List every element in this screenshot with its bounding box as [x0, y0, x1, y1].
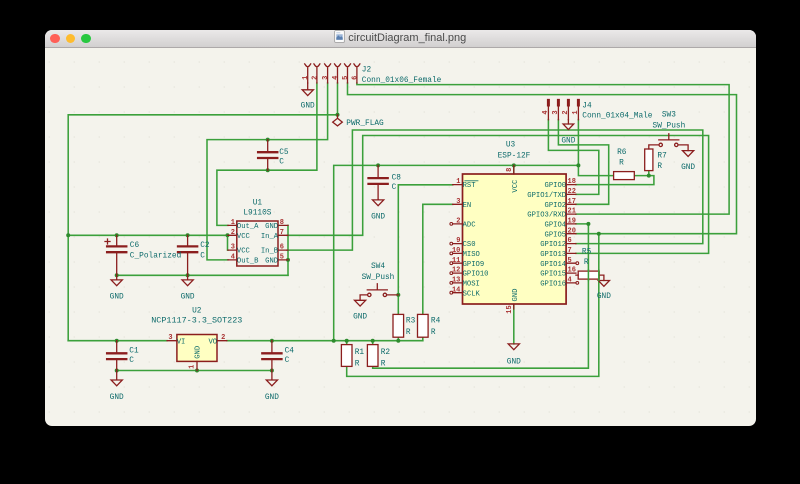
- wire U1 In_B to GPIO12 staircase: [287, 130, 703, 250]
- IC U1 L9110S body: [236, 221, 277, 266]
- svg-text:4: 4: [567, 277, 571, 285]
- svg-text:MOSI: MOSI: [462, 281, 479, 289]
- svg-text:EN: EN: [462, 202, 471, 210]
- wire J2 pin2 to Out_A line: [216, 83, 316, 225]
- wire J2 pin5 long run to GPIO5: [347, 83, 736, 234]
- U1 pin name labels: [236, 223, 278, 266]
- svg-text:5: 5: [279, 254, 283, 262]
- resistor R7: [644, 149, 652, 171]
- svg-text:Conn_01x04_Male: Conn_01x04_Male: [582, 113, 653, 121]
- svg-text:GPIO16: GPIO16: [540, 281, 566, 289]
- ground symbol under C6: [111, 275, 122, 285]
- wire J4 pin1 to C8 line and R6 left: [578, 120, 613, 176]
- svg-text:R: R: [583, 259, 588, 267]
- svg-text:GND: GND: [109, 293, 123, 301]
- wire R4 bottom lead: [421, 337, 423, 341]
- wire J4 pin3 to GPIO2: [558, 120, 608, 205]
- svg-text:GPIO0: GPIO0: [544, 182, 566, 190]
- svg-text:4: 4: [331, 76, 339, 80]
- IC U3 ESP-12F body: [462, 174, 566, 304]
- svg-text:GND: GND: [506, 358, 520, 366]
- svg-text:GND: GND: [180, 293, 194, 301]
- svg-text:C4: C4: [284, 348, 294, 356]
- svg-text:18: 18: [567, 178, 575, 186]
- capacitor C2: [178, 246, 197, 252]
- J2 pin numbers 1-6 rotated: [302, 76, 359, 80]
- svg-text:GND: GND: [353, 314, 367, 322]
- wire left power rail x=67.7 with top run to J2.4: [68, 115, 337, 341]
- wire J2 pin4 to PWR_FLAG junction: [336, 83, 338, 115]
- IC U2 NCP1117 body: [176, 335, 216, 362]
- U2 pin numbers: [168, 334, 225, 369]
- U2 pin stubs: [167, 341, 227, 371]
- svg-text:VI: VI: [176, 339, 185, 347]
- svg-text:8: 8: [506, 168, 514, 172]
- svg-text:GND: GND: [109, 394, 123, 402]
- resistor R6: [613, 172, 634, 180]
- resistor R4: [417, 314, 428, 337]
- wire U3 VCC pin8 stub: [512, 165, 514, 174]
- wire U1 pin8-pin5 gnd riser x=287.5: [287, 225, 289, 275]
- capacitor C8: [368, 178, 387, 184]
- svg-text:1: 1: [571, 110, 579, 114]
- wire C1-U2gnd-C4 tie y=370.5: [116, 370, 271, 372]
- wire C6-C2-U1 gnd tie y=275.3: [116, 274, 287, 276]
- svg-text:C: C: [391, 184, 396, 192]
- svg-text:SCLK: SCLK: [462, 290, 480, 298]
- svg-text:L9110S: L9110S: [243, 210, 271, 218]
- ground symbol at SW3: [682, 151, 693, 157]
- svg-text:GND: GND: [371, 213, 385, 221]
- switch SW3: [648, 134, 687, 151]
- svg-text:3: 3: [456, 198, 460, 206]
- ground symbol at SW4: [354, 300, 365, 306]
- wire SW4 junction down to R3 top: [397, 295, 399, 315]
- wire U3 EN to R4 top: [422, 204, 452, 314]
- svg-text:2: 2: [456, 218, 460, 226]
- U3 pin stubs right: [566, 185, 576, 283]
- faint schematic grid dots: [45, 47, 756, 425]
- wire overlay crossing R5 body: [588, 270, 598, 280]
- svg-text:1: 1: [230, 219, 234, 227]
- svg-text:GPIO15: GPIO15: [540, 271, 566, 279]
- svg-text:SW_Push: SW_Push: [361, 274, 394, 282]
- svg-text:PWR_FLAG: PWR_FLAG: [346, 120, 384, 128]
- capacitor C5: [258, 152, 277, 158]
- svg-text:GND: GND: [264, 394, 278, 402]
- ground symbol under J2 pin1: [302, 83, 313, 96]
- svg-text:6: 6: [567, 237, 571, 245]
- svg-text:2: 2: [221, 334, 225, 342]
- wire VCC-pin2 line y=235.3: [68, 234, 227, 236]
- connector J4 male pins 4,3,2,1: [548, 100, 578, 120]
- svg-text:GND: GND: [265, 258, 278, 266]
- svg-text:GND: GND: [561, 137, 575, 145]
- U3 pin stubs left: [452, 185, 462, 293]
- svg-text:7: 7: [279, 229, 283, 237]
- svg-text:C_Polarized: C_Polarized: [129, 253, 180, 261]
- svg-text:5: 5: [341, 76, 349, 80]
- svg-text:6: 6: [279, 244, 283, 252]
- svg-text:MISO: MISO: [462, 251, 479, 259]
- svg-text:17: 17: [567, 198, 575, 206]
- svg-text:14: 14: [451, 286, 459, 294]
- capacitor C6 polarized: [107, 246, 126, 252]
- svg-text:R: R: [657, 163, 662, 171]
- svg-text:GND: GND: [194, 346, 202, 359]
- svg-text:R6: R6: [617, 149, 627, 157]
- wire main 3v3 line y=340.7 right of U2: [226, 340, 422, 342]
- ground symbol under C4: [266, 371, 277, 386]
- svg-text:1: 1: [302, 76, 310, 80]
- ground symbol under C8: [372, 200, 383, 206]
- svg-text:GPIO5: GPIO5: [544, 231, 566, 239]
- svg-text:20: 20: [567, 227, 575, 235]
- svg-text:12: 12: [451, 267, 459, 275]
- svg-text:RST: RST: [462, 182, 476, 190]
- svg-text:GND: GND: [300, 103, 314, 111]
- connector J2 female pins 1-6: [304, 64, 359, 83]
- red pin numbers: [168, 76, 580, 369]
- svg-text:Out_B: Out_B: [236, 258, 258, 266]
- capacitor C1: [107, 353, 126, 359]
- svg-text:J2: J2: [361, 67, 371, 75]
- svg-text:R: R: [380, 360, 385, 368]
- svg-text:R5: R5: [581, 248, 591, 256]
- wire J4 pin4 to GPIO1/TXD: [548, 120, 598, 195]
- wire U3 RST to SW4 junction: [398, 185, 452, 295]
- U3 pin 8 and 15 numbers rotated: [506, 168, 514, 314]
- wire R7 bottom to junction: [647, 171, 649, 176]
- svg-text:Conn_01x06_Female: Conn_01x06_Female: [361, 77, 441, 85]
- wire GPIO5 branch down to R1 bottom: [346, 234, 598, 377]
- svg-text:U3: U3: [505, 142, 515, 150]
- svg-text:R: R: [405, 329, 410, 337]
- svg-text:J4: J4: [582, 103, 592, 111]
- svg-text:C: C: [284, 357, 289, 365]
- U3 pin name labels: [176, 179, 565, 359]
- svg-text:R3: R3: [405, 318, 415, 326]
- svg-text:SW4: SW4: [370, 263, 384, 271]
- svg-text:ADC: ADC: [462, 222, 476, 230]
- svg-text:4: 4: [541, 110, 549, 114]
- svg-text:9: 9: [456, 237, 460, 245]
- svg-text:R4: R4: [430, 318, 440, 326]
- svg-text:C: C: [279, 159, 284, 167]
- wire R2 top lead: [371, 341, 373, 345]
- svg-text:VCC: VCC: [236, 248, 250, 256]
- U3 top VCC pin stub and bottom GND pin stub: [512, 165, 514, 309]
- svg-text:GPIO3/RXD: GPIO3/RXD: [527, 212, 566, 220]
- switch SW4: [360, 284, 398, 301]
- teal reference and value text: [109, 67, 695, 402]
- power flag PWR_FLAG: [332, 115, 342, 126]
- ground symbol under C1: [111, 371, 122, 386]
- svg-text:GND: GND: [681, 164, 695, 172]
- svg-text:2: 2: [311, 76, 319, 80]
- svg-text:R: R: [354, 360, 359, 368]
- svg-text:In_A: In_A: [260, 233, 278, 241]
- svg-text:GPIO10: GPIO10: [462, 271, 488, 279]
- ground symbol under C2: [182, 275, 193, 285]
- svg-text:3: 3: [230, 244, 234, 252]
- J4 pin numbers 4,3,2,1 rotated: [541, 110, 579, 114]
- svg-text:R2: R2: [380, 349, 390, 357]
- svg-text:GPIO14: GPIO14: [540, 261, 566, 269]
- svg-text:ESP-12F: ESP-12F: [497, 153, 530, 161]
- ground symbol under U3 pin15: [508, 344, 519, 350]
- svg-text:3: 3: [322, 76, 330, 80]
- svg-text:SW_Push: SW_Push: [652, 123, 685, 131]
- U3 pin numbers left: [451, 178, 459, 294]
- wire C8 line y=165.4 with riser to 3v3 line: [333, 165, 578, 340]
- capacitor C4: [262, 353, 281, 359]
- wire R3 bottom lead: [397, 337, 399, 341]
- svg-text:C6: C6: [129, 242, 139, 250]
- wire GPIO4 branch down to R2 bottom: [372, 224, 588, 368]
- svg-text:GPIO12: GPIO12: [540, 241, 566, 249]
- svg-text:1: 1: [456, 178, 460, 186]
- svg-text:11: 11: [451, 257, 459, 265]
- svg-text:3: 3: [551, 110, 559, 114]
- svg-text:SW3: SW3: [661, 112, 675, 120]
- svg-text:21: 21: [567, 208, 575, 216]
- U1 pin stubs: [227, 225, 287, 260]
- svg-text:4: 4: [230, 254, 234, 262]
- resistor R3: [393, 314, 404, 337]
- svg-text:In_B: In_B: [260, 248, 278, 256]
- svg-text:15: 15: [506, 305, 514, 313]
- svg-text:7: 7: [567, 247, 571, 255]
- svg-text:VCC: VCC: [511, 179, 519, 193]
- svg-text:2: 2: [561, 110, 569, 114]
- svg-text:GPIO2: GPIO2: [544, 202, 566, 210]
- svg-text:R: R: [430, 329, 435, 337]
- svg-text:CS0: CS0: [462, 241, 475, 249]
- wire J2 pin3 to VCC-C5 line: [207, 83, 328, 260]
- svg-text:R: R: [619, 159, 624, 167]
- svg-text:22: 22: [567, 188, 575, 196]
- R5 leads to GPIO15 and gnd: [575, 275, 603, 280]
- svg-text:NCP1117-3.3_SOT223: NCP1117-3.3_SOT223: [151, 316, 242, 326]
- svg-text:GND: GND: [511, 289, 519, 302]
- svg-text:VCC: VCC: [236, 233, 250, 241]
- svg-text:R1: R1: [354, 349, 364, 357]
- svg-text:GND: GND: [596, 293, 610, 301]
- svg-text:6: 6: [351, 76, 359, 80]
- U3 pin numbers right: [567, 178, 575, 284]
- svg-text:3: 3: [168, 334, 172, 342]
- svg-text:GPIO1/TXD: GPIO1/TXD: [527, 192, 566, 200]
- svg-text:GPIO9: GPIO9: [462, 261, 484, 269]
- svg-text:GPIO13: GPIO13: [540, 251, 566, 259]
- svg-text:C5: C5: [279, 149, 289, 157]
- svg-text:GPIO4: GPIO4: [544, 222, 566, 230]
- wire R1 top lead: [345, 341, 347, 345]
- wire U1 In_A to GPIO13 staircase: [287, 136, 708, 254]
- svg-text:13: 13: [451, 277, 459, 285]
- svg-text:R7: R7: [657, 152, 667, 160]
- svg-text:8: 8: [279, 219, 283, 227]
- wire U1 pin3 riser: [226, 235, 228, 250]
- svg-text:C8: C8: [391, 175, 401, 183]
- svg-text:U1: U1: [252, 200, 262, 208]
- svg-text:5: 5: [567, 257, 571, 265]
- svg-text:C: C: [200, 253, 205, 261]
- resistor R5: [578, 271, 599, 279]
- svg-text:Out_A: Out_A: [236, 223, 258, 231]
- wire main 3v3 line y=340.7 left of U2: [68, 340, 167, 342]
- resistor R1: [341, 345, 352, 367]
- wire J2 pin6 long run to GPIO3/RXD: [356, 83, 728, 214]
- svg-text:16: 16: [567, 267, 575, 275]
- ground symbol under J4 pin2: [563, 120, 574, 130]
- ground symbol at R5: [598, 281, 609, 287]
- wire U3 GND pin15 down: [512, 304, 514, 344]
- component bodies dark red: [105, 64, 694, 386]
- wire GPIO0 to R6-R7 junction: [575, 176, 653, 185]
- svg-text:C: C: [129, 357, 134, 365]
- svg-text:2: 2: [230, 229, 234, 237]
- svg-text:VO: VO: [208, 339, 217, 347]
- svg-text:C2: C2: [200, 242, 210, 250]
- U1 pin numbers: [230, 219, 283, 262]
- svg-text:C1: C1: [129, 348, 139, 356]
- unconnected pin circles: [449, 223, 578, 295]
- wires: green nets: [68, 83, 736, 376]
- svg-text:U2: U2: [192, 308, 202, 316]
- svg-text:1: 1: [188, 365, 196, 369]
- svg-text:10: 10: [451, 247, 459, 255]
- resistor R2: [367, 345, 378, 367]
- svg-text:GND: GND: [265, 223, 278, 231]
- svg-text:19: 19: [567, 218, 575, 226]
